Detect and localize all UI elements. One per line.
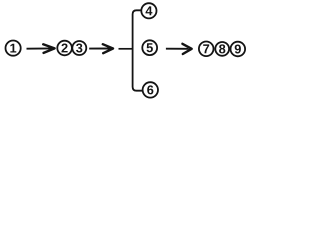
arrow node5 to node7 — [166, 44, 192, 54]
arrow node3 to brace — [89, 44, 113, 53]
arrow node1 to node2 — [27, 44, 55, 53]
brace tick (input) — [119, 48, 133, 50]
node 9 — [231, 42, 246, 57]
node 2 — [57, 41, 72, 56]
node 1 — [6, 41, 21, 56]
node 4 — [141, 3, 156, 18]
node 6 — [143, 82, 158, 97]
node 5 — [142, 40, 157, 55]
node 3 — [72, 41, 86, 55]
node 8 — [215, 42, 229, 56]
node 7 — [199, 42, 214, 57]
brace fork to nodes 4,5,6 — [133, 10, 143, 90]
